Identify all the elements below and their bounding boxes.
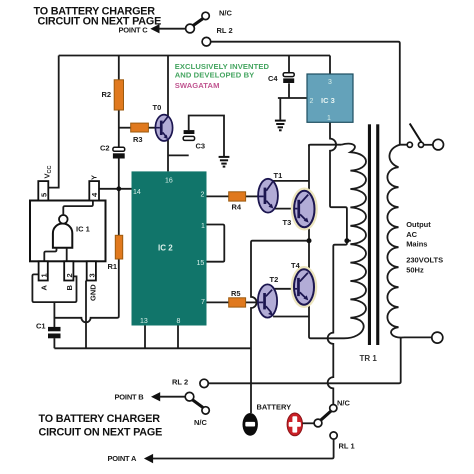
wire R3 to T0 base: [148, 127, 156, 129]
IC2 body: [132, 171, 207, 325]
svg-text:5: 5: [40, 193, 49, 197]
wire C3 top to ground: [189, 116, 224, 157]
IC1 body: [30, 201, 106, 262]
svg-text:TR 1: TR 1: [360, 354, 378, 363]
capacitor C1: [48, 327, 61, 338]
resistor R4: [229, 192, 246, 201]
wire R4 to T1 base: [246, 195, 259, 197]
output switch contact a: [407, 142, 412, 147]
resistor R1: [115, 235, 122, 259]
wire T2 emitter to rail: [273, 316, 309, 318]
wire T1 collector to rail: [273, 180, 309, 182]
transformer primary winding: [342, 144, 367, 339]
relay RL1 pivot: [314, 419, 322, 427]
svg-text:AND DEVELOPED BY: AND DEVELOPED BY: [175, 71, 255, 80]
svg-text:50Hz: 50Hz: [406, 266, 424, 275]
relay RL1 throw contact: [330, 432, 337, 439]
transistor T0: [155, 115, 172, 141]
relay RL2 bottom pivot: [185, 392, 194, 401]
point A arrow: [144, 454, 153, 463]
svg-text:13: 13: [140, 318, 148, 325]
svg-text:GND: GND: [89, 284, 98, 301]
svg-text:1: 1: [327, 115, 331, 122]
wire primary top to T collector rail corner: [309, 145, 342, 147]
svg-text:EXCLUSIVELY INVENTED: EXCLUSIVELY INVENTED: [175, 62, 270, 71]
NAND output wire to pin4: [63, 201, 93, 216]
svg-text:C3: C3: [196, 142, 206, 151]
svg-text:IC 1: IC 1: [76, 225, 90, 234]
transistor T2: [258, 284, 277, 317]
wire C4 top to bus: [288, 56, 290, 73]
wire secondary bottom to output terminal: [404, 336, 432, 338]
wire IC2 pin14 from IC1 Y: [99, 188, 132, 190]
transistor T4 with glow: [292, 268, 315, 307]
capacitor C4: [283, 73, 294, 83]
wire R1 bottom with hop over GND lead: [55, 259, 119, 322]
svg-text:R1: R1: [108, 262, 118, 271]
transistor T3 with glow: [292, 189, 316, 229]
svg-text:16: 16: [165, 178, 173, 185]
IC1 pin 5 box: [38, 181, 48, 200]
svg-text:RL 2: RL 2: [217, 26, 233, 35]
capacitor C3: [183, 130, 194, 140]
svg-text:14: 14: [133, 189, 141, 196]
resistor R3: [131, 123, 149, 132]
wire C1 to bottom bus: [53, 338, 55, 348]
relay RL2 bottom: point B arrow: [151, 392, 160, 401]
capacitor C2: [113, 147, 125, 158]
svg-text:Mains: Mains: [406, 240, 427, 249]
output terminal bottom: [432, 332, 443, 343]
svg-text:AC: AC: [406, 230, 417, 239]
relay RL2 top N/C contact: [202, 12, 209, 19]
output terminal top: [433, 139, 444, 150]
svg-text:2: 2: [65, 273, 74, 277]
wire IC3 pin3 to bus: [329, 56, 331, 75]
output switch lever: [410, 124, 422, 143]
wire T0 emitter to IC2 pin16: [167, 139, 169, 171]
relay RL2 top lever: [193, 19, 203, 26]
IC1 pin 1 box: [39, 261, 48, 280]
relay RL1 lever: [321, 411, 331, 420]
wire T1 emitter to T3 base: [273, 208, 294, 210]
svg-text:15: 15: [197, 260, 205, 267]
svg-text:T0: T0: [153, 103, 162, 112]
svg-text:1: 1: [40, 273, 49, 277]
wire secondary bottom to RL2 bottom contact: [208, 337, 400, 383]
ground near C4: [275, 121, 286, 131]
IC3 body: [307, 74, 353, 122]
svg-text:IC 2: IC 2: [158, 244, 173, 253]
svg-text:CIRCUIT ON NEXT PAGE: CIRCUIT ON NEXT PAGE: [39, 427, 163, 439]
battery negative terminal: [243, 413, 258, 436]
wire T-rail vertical upper (to T3): [308, 145, 310, 194]
wire R3 left lead: [119, 127, 131, 129]
output switch link wire: [424, 144, 433, 146]
relay RL1 N/C contact: [330, 405, 337, 412]
wire T-rail below T4 to corner and primary bottom: [309, 302, 344, 338]
wire T-rail between T3 and T4: [308, 225, 310, 273]
wire R2 branch vertical: [118, 56, 120, 189]
relay RL2 top throw contact: [202, 37, 211, 46]
relay RL2 top: point C arrow: [150, 24, 159, 33]
wire IC2 pin1 to pin15 loop: [207, 225, 225, 262]
transformer core: [368, 124, 371, 345]
wire Vcc drop to IC1 pin5: [48, 56, 58, 188]
svg-text:N/C: N/C: [194, 418, 208, 427]
transistor T1: [258, 179, 278, 213]
battery positive terminal: [287, 413, 302, 436]
wire center tap stub to coil: [347, 240, 351, 242]
wire IC2 pin7 to R5: [207, 301, 229, 303]
svg-text:3: 3: [328, 79, 332, 86]
svg-text:C1: C1: [36, 322, 46, 331]
svg-text:N/C: N/C: [337, 399, 351, 408]
svg-text:POINT A: POINT A: [108, 454, 138, 463]
resistor R2: [114, 80, 123, 110]
svg-text:Output: Output: [406, 220, 431, 229]
junction node collector rail: [307, 238, 312, 243]
wire bottom ground bus: [54, 347, 251, 349]
svg-text:TO BATTERY CHARGER: TO BATTERY CHARGER: [39, 413, 161, 425]
svg-text:1: 1: [201, 223, 205, 230]
wire IC1 pins 1-2 strap: [32, 274, 76, 302]
IC1 pin 3 box: [87, 261, 96, 280]
relay RL2 top pivot: [186, 24, 195, 33]
wire collector rail to ground rail at y240.7: [251, 241, 309, 413]
wire C4 bottom to IC3 pin2 and ground: [278, 83, 307, 120]
wire RL2 top contact to output switch: [211, 42, 408, 145]
svg-text:2: 2: [310, 98, 314, 105]
svg-text:C2: C2: [100, 144, 110, 153]
NAND gate of IC1: [53, 224, 72, 248]
wire IC2 pin8 down: [177, 326, 179, 349]
svg-text:N/C: N/C: [219, 9, 233, 18]
svg-text:T2: T2: [270, 275, 279, 284]
svg-text:B: B: [65, 285, 74, 291]
svg-text:230VOLTS: 230VOLTS: [406, 256, 443, 265]
svg-text:SWAGATAM: SWAGATAM: [175, 81, 220, 90]
svg-text:IC 3: IC 3: [321, 96, 335, 105]
svg-text:POINT B: POINT B: [115, 393, 145, 402]
wire IC1 GND pin3 to bottom bus: [85, 281, 87, 349]
svg-text:BATTERY: BATTERY: [257, 403, 292, 412]
ground near C3: [219, 157, 230, 167]
svg-text:R3: R3: [133, 135, 143, 144]
junction node center tap: [344, 238, 349, 243]
svg-text:T1: T1: [274, 171, 283, 180]
junction node R1/C2/pin4/pin14: [116, 186, 121, 191]
NAND input wires: [44, 248, 66, 261]
wire RL1 to point A: [153, 439, 334, 458]
wire IC2 pin2 to R4: [207, 195, 229, 197]
relay RL2 bottom contact: [200, 379, 208, 387]
svg-text:POINT C: POINT C: [119, 26, 149, 35]
svg-text:8: 8: [177, 318, 181, 325]
svg-text:C4: C4: [268, 74, 278, 83]
svg-text:T3: T3: [283, 218, 292, 227]
svg-text:RL 1: RL 1: [339, 442, 355, 451]
wire center tap down to RL1 N/C with two hops: [328, 241, 347, 405]
IC1 pin 2 box: [64, 261, 73, 280]
svg-text:2: 2: [201, 192, 205, 199]
wire C3 bottom stub: [168, 154, 189, 156]
relay RL2 bottom lever: [192, 400, 203, 408]
wire R1 top: [118, 189, 120, 236]
transformer secondary winding: [387, 145, 403, 338]
svg-text:R5: R5: [231, 289, 241, 298]
wire T0 collector to bus: [167, 56, 169, 117]
relay RL2 bottom N/C contact: [202, 407, 209, 414]
wire IC2 pin13 down: [144, 326, 146, 349]
svg-text:T4: T4: [291, 261, 301, 270]
wire IC3 pin1 down with hop then to center tap: [330, 122, 347, 238]
wire R5 to T2 base: [246, 301, 259, 303]
IC1 pin 4 box: [89, 181, 99, 200]
wire battery plus to RL1 pivot: [303, 422, 315, 424]
svg-text:R2: R2: [102, 90, 112, 99]
svg-text:3: 3: [88, 273, 97, 277]
svg-text:Y: Y: [90, 175, 99, 180]
svg-text:RL 2: RL 2: [172, 378, 188, 387]
output switch contact b: [418, 142, 423, 147]
wire strap to C1: [53, 302, 55, 327]
resistor R5: [229, 298, 246, 307]
wire T2 collector to T4 base: [272, 288, 294, 290]
svg-text:A: A: [40, 285, 49, 291]
svg-text:7: 7: [201, 299, 205, 306]
svg-text:R4: R4: [232, 203, 242, 212]
wire top supply bus: [59, 55, 330, 57]
